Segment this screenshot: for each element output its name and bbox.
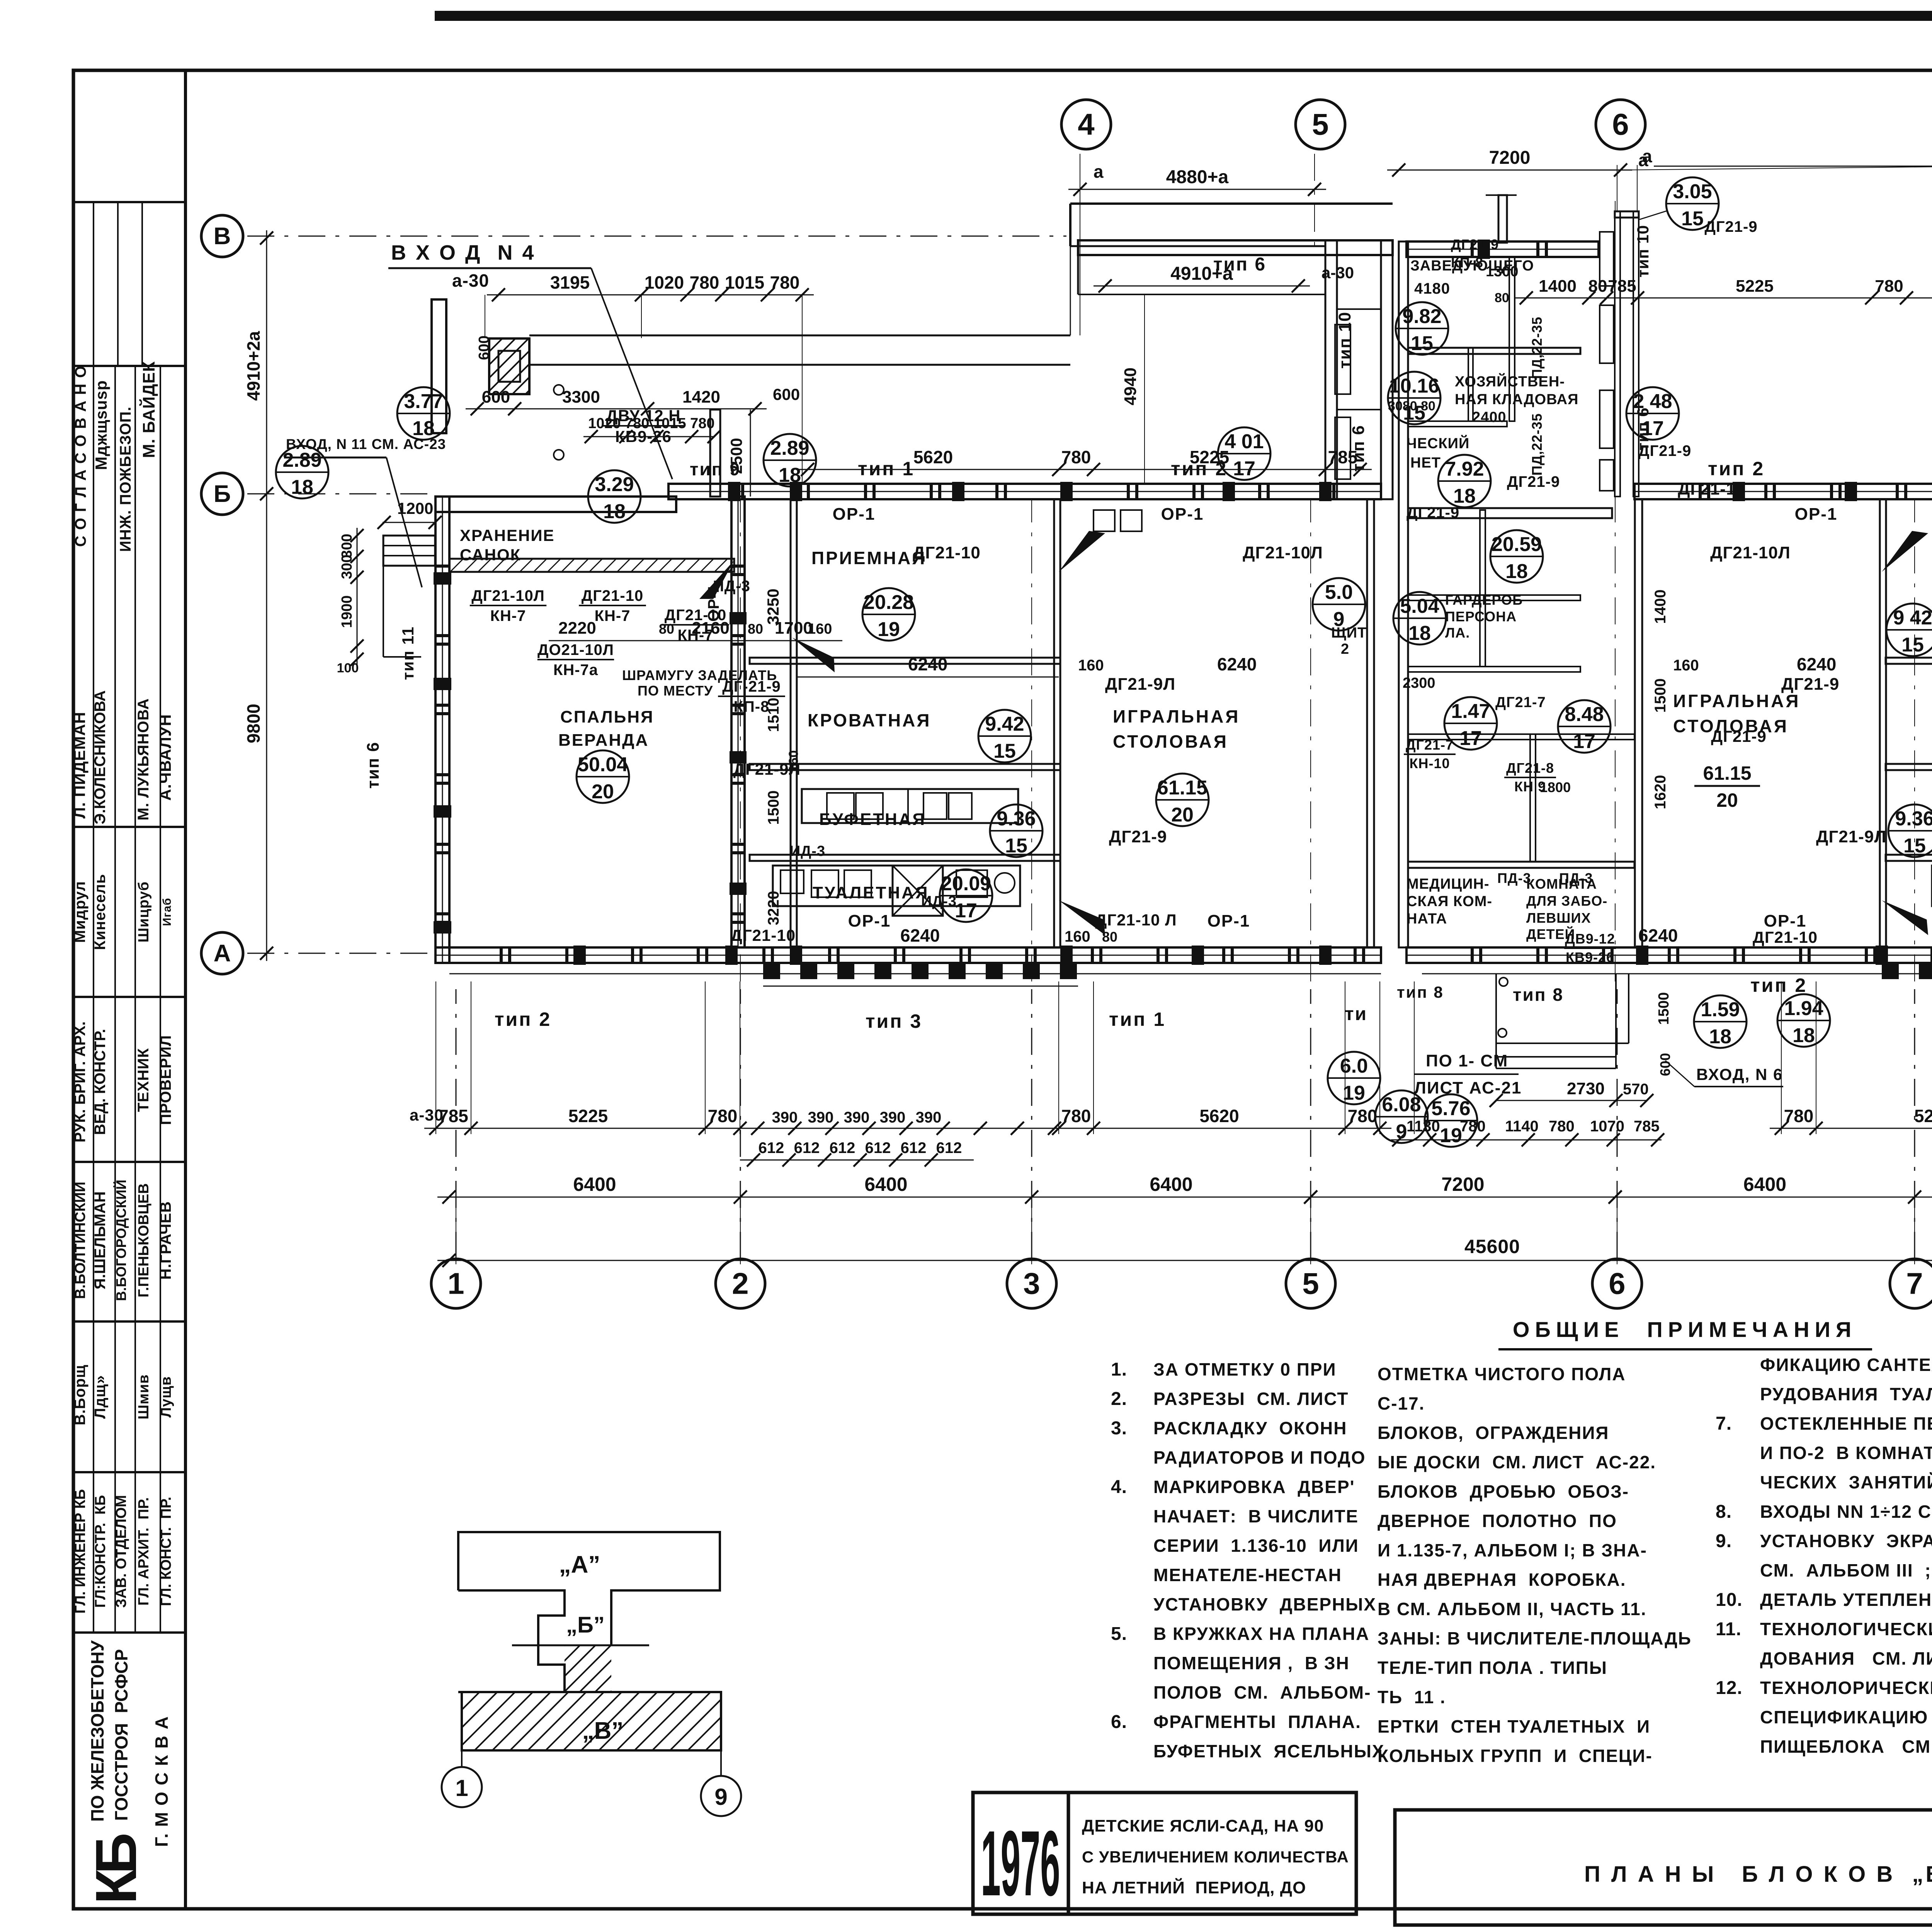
left plan: top dim chain a-30 3195 1020 780 1015 780: [487, 294, 814, 296]
svg-text:4: 4: [1078, 107, 1094, 141]
left plan: west small dim chain 300 300 1900 100: [357, 528, 358, 667]
svg-text:1420: 1420: [682, 388, 720, 406]
svg-text:20: 20: [592, 781, 614, 803]
svg-text:780: 780: [708, 1106, 738, 1126]
svg-text:17: 17: [1459, 727, 1482, 750]
svg-text:15: 15: [993, 740, 1016, 762]
svg-text:„Б”: „Б”: [566, 1612, 605, 1638]
svg-text:4180: 4180: [1414, 280, 1450, 297]
svg-text:Б: Б: [214, 481, 231, 507]
svg-text:300: 300: [339, 534, 355, 558]
svg-text:ЛЕВШИХ: ЛЕВШИХ: [1526, 910, 1591, 926]
svg-text:ЗАВ. ОТДЕЛОМ: ЗАВ. ОТДЕЛОМ: [113, 1495, 129, 1608]
svg-text:612: 612: [759, 1139, 784, 1156]
svg-text:ОР-1: ОР-1: [1764, 912, 1807, 930]
svg-text:5225: 5225: [1190, 447, 1229, 467]
svg-text:1500: 1500: [765, 791, 782, 825]
svg-text:19: 19: [1343, 1082, 1365, 1104]
left plan: wall reception/bed room: [750, 658, 1060, 664]
svg-text:ГЛ. КОНСТ. ПР.: ГЛ. КОНСТ. ПР.: [158, 1497, 174, 1606]
svg-text:РУК. БРИГ. АРХ.: РУК. БРИГ. АРХ.: [71, 1021, 88, 1143]
left plan: west outer window wall: [435, 497, 449, 963]
svg-text:80: 80: [748, 621, 763, 637]
svg-text:1: 1: [455, 1775, 468, 1801]
svg-text:СПАЛЬНЯ: СПАЛЬНЯ: [560, 707, 654, 726]
key plan match line: [512, 1645, 649, 1646]
svg-text:ДГ21-10: ДГ21-10: [1753, 928, 1818, 946]
svg-text:1976: 1976: [981, 1811, 1060, 1915]
svg-text:ДГ21-9: ДГ21-9: [1781, 675, 1839, 694]
left plan: wall bed/buffet room: [750, 764, 1060, 770]
svg-text:МЕНАТЕЛЕ-НЕСТАН: МЕНАТЕЛЕ-НЕСТАН: [1153, 1565, 1342, 1585]
svg-text:ПД-3: ПД-3: [1497, 870, 1531, 886]
svg-text:15: 15: [1005, 835, 1027, 857]
svg-text:М. ЛУКЬЯНОВА: М. ЛУКЬЯНОВА: [135, 698, 152, 821]
svg-text:В СМ. АЛЬБОМ II, ЧАСТЬ 11.: В СМ. АЛЬБОМ II, ЧАСТЬ 11.: [1378, 1599, 1647, 1619]
top dim 7200 right: [1387, 170, 1632, 171]
svg-text:ПОЛОВ СМ. АЛЬБОМ-: ПОЛОВ СМ. АЛЬБОМ-: [1153, 1682, 1371, 1702]
row letter bubbles: [201, 215, 243, 257]
svg-text:ПО ЖЕЛЕЗОБЕТОНУ: ПО ЖЕЛЕЗОБЕТОНУ: [87, 1640, 107, 1822]
svg-text:5225: 5225: [1914, 1106, 1932, 1126]
svg-text:1020: 1020: [645, 272, 684, 293]
svg-text:9.36: 9.36: [1895, 808, 1932, 830]
svg-text:780: 780: [1784, 1106, 1814, 1126]
left plan: play room radiator boxes: [1094, 510, 1115, 531]
svg-text:КВ9-26: КВ9-26: [1566, 949, 1614, 965]
svg-text:ТЕЛЕ-ТИП ПОЛА . ТИПЫ: ТЕЛЕ-ТИП ПОЛА . ТИПЫ: [1378, 1658, 1607, 1678]
svg-text:5: 5: [1312, 107, 1328, 141]
svg-text:1510: 1510: [765, 698, 782, 732]
svg-text:160: 160: [1673, 657, 1699, 674]
svg-text:СМ. АЛЬБОМ III ; ЧАСТЬ 7-6 ;: СМ. АЛЬБОМ III ; ЧАСТЬ 7-6 ; ЛИСТ 24.: [1760, 1560, 1932, 1580]
svg-text:5225: 5225: [568, 1106, 608, 1126]
right plan: middle section top facade wall: [1406, 241, 1599, 257]
left plan: east wall of play room: [1367, 499, 1374, 947]
svg-text:785: 785: [1608, 277, 1636, 296]
svg-text:Шмив: Шмив: [136, 1374, 152, 1419]
svg-text:ДГ21-9: ДГ21-9: [1451, 236, 1499, 252]
svg-text:ДГ21-10Л: ДГ21-10Л: [1710, 543, 1791, 562]
svg-text:ЫЕ ДОСКИ СМ. ЛИСТ АС-22.: ЫЕ ДОСКИ СМ. ЛИСТ АС-22.: [1378, 1452, 1656, 1472]
svg-text:КН-7: КН-7: [490, 607, 526, 624]
svg-text:20.28: 20.28: [864, 591, 914, 614]
svg-text:ДГ21-10 Л: ДГ21-10 Л: [1095, 911, 1177, 929]
svg-text:1620: 1620: [1652, 775, 1669, 810]
svg-text:780: 780: [1875, 277, 1903, 296]
svg-text:4940: 4940: [1121, 367, 1140, 405]
left plan: toilet room fixtures: [773, 866, 1020, 906]
title block project name box: [1068, 1793, 1356, 1914]
svg-text:И ПО-2 В КОМНАТЕ ДЛЯ МУЗЫКАЛЬ: И ПО-2 В КОМНАТЕ ДЛЯ МУЗЫКАЛЬНЫХ И ГИМНА…: [1760, 1443, 1932, 1463]
svg-text:5.76: 5.76: [1431, 1097, 1470, 1120]
svg-text:7200: 7200: [1441, 1173, 1484, 1195]
svg-text:785: 785: [1634, 1118, 1660, 1135]
svg-text:61.15: 61.15: [1157, 777, 1207, 799]
svg-text:ПД,22-35: ПД,22-35: [1529, 413, 1545, 476]
svg-text:ТЬ 11 .: ТЬ 11 .: [1378, 1687, 1446, 1707]
svg-text:80: 80: [1102, 929, 1117, 945]
scan edge black bar top: [435, 11, 1932, 21]
svg-text:3300: 3300: [562, 388, 600, 406]
svg-text:ЛА.: ЛА.: [1445, 625, 1470, 641]
top dim 4880+a: [1068, 189, 1326, 190]
svg-text:2500: 2500: [727, 438, 745, 474]
svg-text:Л. ПИДЕМАН: Л. ПИДЕМАН: [70, 712, 88, 819]
svg-text:ЩИТ: ЩИТ: [1331, 625, 1367, 641]
svg-text:17: 17: [1233, 457, 1255, 480]
svg-text:ДГ21-9: ДГ21-9: [1704, 218, 1757, 235]
left plan: west porch stair type11: [383, 536, 435, 566]
left plan: dim 5620 780 5225 785 upper row: [796, 469, 1372, 470]
svg-text:ИД-3: ИД-3: [790, 843, 825, 859]
grid bubbles bottom left plan: [456, 989, 457, 1259]
svg-text:ПОМЕЩЕНИЯ , В ЗН: ПОМЕЩЕНИЯ , В ЗН: [1153, 1653, 1350, 1673]
bottom dim row 6400 left: [437, 1197, 1322, 1198]
svg-text:10.: 10.: [1716, 1590, 1743, 1610]
svg-text:ДВЕРНОЕ ПОЛОТНО ПО: ДВЕРНОЕ ПОЛОТНО ПО: [1378, 1511, 1617, 1531]
svg-text:ОР-1: ОР-1: [833, 505, 876, 524]
svg-text:ГЛ. АРХИТ. ПР.: ГЛ. АРХИТ. ПР.: [136, 1497, 152, 1606]
left plan: doors diagonal strokes: [1059, 531, 1105, 572]
svg-text:3250: 3250: [764, 588, 782, 624]
svg-text:2: 2: [732, 1267, 748, 1301]
svg-text:А.ЧВАЛУН: А.ЧВАЛУН: [156, 714, 174, 801]
svg-text:2 48: 2 48: [1633, 390, 1672, 413]
svg-text:9.42: 9.42: [985, 713, 1024, 735]
svg-text:20: 20: [1716, 789, 1738, 811]
svg-text:Шицруб: Шицруб: [136, 881, 152, 942]
svg-text:ГЛ. ИНЖЕНЕР КБ: ГЛ. ИНЖЕНЕР КБ: [72, 1489, 88, 1614]
svg-text:6240: 6240: [1638, 925, 1678, 946]
svg-text:600: 600: [476, 335, 492, 360]
svg-text:а: а: [1642, 146, 1652, 166]
svg-text:1900: 1900: [339, 595, 355, 628]
svg-text:780: 780: [1549, 1118, 1575, 1135]
svg-text:6240: 6240: [1217, 654, 1257, 674]
svg-text:тип 2: тип 2: [1708, 458, 1765, 480]
svg-text:9: 9: [714, 1784, 727, 1810]
left plan: pier row sills: [763, 986, 1078, 987]
svg-text:15: 15: [1403, 402, 1425, 424]
svg-text:17: 17: [955, 900, 977, 922]
svg-text:КП-8: КП-8: [1451, 255, 1483, 270]
svg-text:7: 7: [1906, 1267, 1923, 1301]
svg-text:8.: 8.: [1716, 1502, 1732, 1522]
svg-text:НА ЛЕТНИЙ ПЕРИОД, ДО: НА ЛЕТНИЙ ПЕРИОД, ДО: [1082, 1878, 1306, 1897]
svg-text:а-30: а-30: [410, 1106, 444, 1124]
svg-text:РУДОВАНИЯ ТУАЛЕТНЫХ СМ. ЛИС: РУДОВАНИЯ ТУАЛЕТНЫХ СМ. ЛИСТ АС-20.: [1760, 1384, 1932, 1404]
svg-text:8.48: 8.48: [1565, 703, 1604, 726]
svg-text:ЗА ОТМЕТКУ 0 ПРИ: ЗА ОТМЕТКУ 0 ПРИ: [1153, 1359, 1337, 1379]
svg-text:390: 390: [772, 1109, 798, 1126]
svg-text:4 01: 4 01: [1225, 430, 1264, 453]
svg-text:ФРАГМЕНТЫ ПЛАНА.: ФРАГМЕНТЫ ПЛАНА.: [1153, 1712, 1361, 1732]
left plan: dim chain 600 3300 600: [466, 408, 767, 410]
svg-text:1: 1: [447, 1267, 464, 1301]
svg-text:15: 15: [1901, 634, 1924, 656]
svg-text:1500: 1500: [1652, 679, 1669, 713]
svg-text:7.: 7.: [1716, 1413, 1732, 1434]
svg-text:612: 612: [901, 1139, 927, 1156]
left plan: window pier column x1838 (entrance): [710, 410, 720, 497]
svg-text:УСТАНОВКУ ДВЕРНЫХ: УСТАНОВКУ ДВЕРНЫХ: [1153, 1594, 1376, 1614]
svg-text:„В”: „В”: [582, 1718, 624, 1744]
left plan: sled storage top wall: [435, 497, 676, 512]
svg-text:3.05: 3.05: [1673, 180, 1712, 203]
svg-text:а: а: [1094, 162, 1104, 182]
right plan: pier row under toilets: [1882, 963, 1899, 979]
svg-text:780: 780: [690, 272, 719, 293]
svg-text:ПРОВЕРИЛ: ПРОВЕРИЛ: [157, 1035, 174, 1125]
svg-text:780: 780: [1061, 1106, 1091, 1126]
svg-text:СЕРИИ 1.136-10 ИЛИ: СЕРИИ 1.136-10 ИЛИ: [1153, 1536, 1359, 1556]
svg-text:1.: 1.: [1111, 1359, 1127, 1380]
svg-text:2: 2: [1341, 641, 1349, 657]
svg-text:ЕРТКИ СТЕН ТУАЛЕТНЫХ И: ЕРТКИ СТЕН ТУАЛЕТНЫХ И: [1378, 1716, 1650, 1736]
svg-text:ВЕРАНДА: ВЕРАНДА: [558, 731, 649, 750]
svg-text:80: 80: [1588, 277, 1607, 296]
svg-text:3195: 3195: [550, 272, 590, 293]
svg-text:ДГ21-7: ДГ21-7: [1406, 737, 1454, 753]
svg-text:45600: 45600: [1464, 1236, 1520, 1257]
left plan: east corridor strip walls: [1325, 240, 1337, 499]
svg-text:2.: 2.: [1111, 1389, 1127, 1409]
svg-text:9.82: 9.82: [1402, 305, 1441, 328]
svg-text:П Л А Н Ы Б Л О К О В „В” и: П Л А Н Ы Б Л О К О В „В” и „Б”: [1584, 1862, 1932, 1887]
svg-text:15: 15: [1681, 207, 1704, 230]
svg-text:1070: 1070: [1590, 1118, 1624, 1135]
extension lines from facade to dim rows left: [435, 981, 436, 1134]
svg-text:Лущв: Лущв: [158, 1376, 174, 1417]
svg-text:18: 18: [412, 417, 435, 440]
svg-text:4910+2а: 4910+2а: [243, 331, 264, 401]
svg-text:ДЛЯ ЗАБО-: ДЛЯ ЗАБО-: [1526, 893, 1607, 909]
svg-text:В.БОЛТИНСКИЙ: В.БОЛТИНСКИЙ: [71, 1182, 88, 1299]
svg-text:В.Борщ: В.Борщ: [71, 1364, 88, 1425]
bottom dim row 1 left plan: [424, 1128, 1391, 1129]
svg-text:612: 612: [794, 1139, 820, 1156]
left plan: buffet counter fixtures: [802, 789, 1018, 823]
svg-text:а-30: а-30: [1321, 264, 1354, 282]
left plan: veranda east window wall: [731, 497, 745, 947]
right plan: leader 305-15: [1639, 211, 1668, 219]
svg-text:КН-10: КН-10: [1409, 755, 1450, 771]
svg-text:УСТАНОВКУ ЭКРАНА ОГРАЖДЕНИЯ: УСТАНОВКУ ЭКРАНА ОГРАЖДЕНИЯ В ТУАЛЕТНЫХ: [1760, 1531, 1932, 1551]
grid dashdot verticals into plan: [740, 498, 741, 981]
svg-text:ДГ21-7: ДГ21-7: [1495, 694, 1546, 711]
svg-text:ЛИСТ АС-21: ЛИСТ АС-21: [1414, 1078, 1522, 1097]
svg-text:Игаб: Игаб: [161, 898, 173, 926]
svg-text:20: 20: [1171, 804, 1194, 826]
svg-text:18: 18: [291, 476, 313, 498]
svg-text:ИГРАЛЬНАЯ: ИГРАЛЬНАЯ: [1673, 691, 1800, 711]
svg-text:2.89: 2.89: [282, 449, 321, 471]
svg-text:Мджщsusр: Мджщsusр: [92, 380, 110, 470]
svg-text:С УВЕЛИЧЕНИЕМ КОЛИЧЕСТВА: С УВЕЛИЧЕНИЕМ КОЛИЧЕСТВА: [1082, 1848, 1349, 1866]
svg-text:11.: 11.: [1716, 1619, 1742, 1639]
svg-text:ОТМЕТКА ЧИСТОГО ПОЛА: ОТМЕТКА ЧИСТОГО ПОЛА: [1378, 1364, 1626, 1384]
svg-text:С-17.: С-17.: [1378, 1393, 1425, 1413]
svg-text:тип 10: тип 10: [1335, 311, 1354, 369]
svg-text:6400: 6400: [1150, 1173, 1192, 1195]
svg-text:НАТА: НАТА: [1406, 911, 1447, 927]
svg-text:1500: 1500: [1656, 992, 1672, 1025]
right plan: lower facade wall: [1406, 947, 1932, 963]
svg-text:1.94: 1.94: [1784, 997, 1823, 1020]
svg-text:тип 2: тип 2: [495, 1009, 551, 1030]
svg-text:МЕДИЦИН-: МЕДИЦИН-: [1406, 876, 1490, 892]
svg-text:ТУАЛЕТНАЯ: ТУАЛЕТНАЯ: [813, 883, 929, 902]
svg-text:ДГ21-9: ДГ21-9: [1109, 827, 1167, 846]
svg-text:10.16: 10.16: [1389, 375, 1439, 397]
svg-text:М. БАЙДЕК: М. БАЙДЕК: [139, 361, 158, 458]
svg-text:9 42: 9 42: [1893, 607, 1932, 629]
svg-text:НАЧАЕТ: В ЧИСЛИТЕ: НАЧАЕТ: В ЧИСЛИТЕ: [1153, 1506, 1359, 1526]
stamp column grid: [184, 70, 187, 1909]
key plan bubbles: [461, 1750, 463, 1768]
svg-text:ГЛ:КОНСТР. КБ: ГЛ:КОНСТР. КБ: [92, 1495, 109, 1608]
svg-text:БЛОКОВ, ОГРАЖДЕНИЯ: БЛОКОВ, ОГРАЖДЕНИЯ: [1378, 1423, 1609, 1443]
bottom dim row total 45600: [437, 1260, 1932, 1261]
left plan: upper facade wall type1/type9: [668, 484, 1381, 499]
svg-text:5.04: 5.04: [1400, 595, 1439, 617]
svg-text:тип 2: тип 2: [1750, 975, 1807, 996]
svg-text:1800: 1800: [1540, 779, 1571, 795]
svg-text:ПИЩЕБЛОКА СМ. ЛИСТ Т-3 .: ПИЩЕБЛОКА СМ. ЛИСТ Т-3 .: [1760, 1736, 1932, 1757]
svg-text:18: 18: [603, 500, 626, 523]
svg-text:Кинесель: Кинесель: [92, 874, 109, 950]
svg-text:ОР-1: ОР-1: [848, 912, 891, 930]
svg-text:2160: 2160: [692, 619, 730, 638]
svg-text:5620: 5620: [913, 447, 953, 467]
svg-text:20.09: 20.09: [941, 872, 991, 895]
svg-text:ДГ21-9: ДГ21-9: [1711, 727, 1767, 745]
title block 1976 logo box: [973, 1793, 1068, 1914]
svg-text:61.15: 61.15: [1703, 762, 1751, 784]
svg-text:100: 100: [337, 661, 359, 675]
svg-text:ФИКАЦИЮ САНТЕХНИЧЕСКОГО И ТЕХН: ФИКАЦИЮ САНТЕХНИЧЕСКОГО И ТЕХНОЛОГИЧЕСКО…: [1760, 1355, 1932, 1375]
svg-text:Н.ГРАЧЕВ: Н.ГРАЧЕВ: [157, 1201, 174, 1279]
right plan: canopy right part: [1654, 166, 1932, 167]
svg-text:КРОВАТНАЯ: КРОВАТНАЯ: [808, 710, 931, 730]
svg-text:БЛОКОВ ДРОБЬЮ ОБОЗ-: БЛОКОВ ДРОБЬЮ ОБОЗ-: [1378, 1481, 1629, 1502]
svg-text:В: В: [214, 223, 231, 250]
svg-text:1.59: 1.59: [1701, 998, 1740, 1021]
svg-text:ТЕХНОЛОРИЧЕСКИЙ ПЛАН ПИЩЕБЛОК: ТЕХНОЛОРИЧЕСКИЙ ПЛАН ПИЩЕБЛОКА И ПОСТИРО…: [1760, 1678, 1932, 1698]
svg-text:КП-8: КП-8: [734, 698, 770, 715]
svg-text:ТЕХНИК: ТЕХНИК: [135, 1048, 152, 1112]
svg-text:ДОВАНИЯ СМ. ЛИСТЫ Т-1 , Т-: ДОВАНИЯ СМ. ЛИСТЫ Т-1 , Т-2 .: [1760, 1648, 1932, 1668]
svg-text:1300: 1300: [1486, 264, 1519, 280]
left plan: wall buffet/toilet room: [750, 855, 1060, 861]
svg-text:390: 390: [808, 1109, 834, 1126]
svg-text:тип 10: тип 10: [1634, 225, 1652, 277]
svg-text:9800: 9800: [243, 704, 264, 743]
bottom dim row 1 right plan: [1770, 1128, 1932, 1129]
right plan: upper facade wall group cell: [1634, 484, 1932, 499]
svg-text:17: 17: [1641, 417, 1664, 440]
svg-text:ДГ21-10: ДГ21-10: [1678, 480, 1746, 498]
svg-text:ДГ21-9Л: ДГ21-9Л: [1105, 675, 1175, 694]
svg-text:1020 780 1015 780: 1020 780 1015 780: [588, 415, 715, 432]
top grid bubbles 4 5: [1061, 100, 1111, 149]
svg-text:12.: 12.: [1716, 1678, 1743, 1698]
svg-text:ВХОД, N 6: ВХОД, N 6: [1696, 1065, 1783, 1083]
svg-text:9.: 9.: [1716, 1531, 1732, 1551]
svg-text:612: 612: [936, 1139, 962, 1156]
svg-text:19: 19: [878, 618, 900, 641]
svg-text:ОР-1: ОР-1: [1207, 912, 1250, 930]
svg-text:КОЛЬНЫХ ГРУПП И СПЕЦИ-: КОЛЬНЫХ ГРУПП И СПЕЦИ-: [1378, 1746, 1653, 1766]
svg-text:ГАРДЕРОБ: ГАРДЕРОБ: [1445, 592, 1523, 608]
svg-text:19: 19: [1440, 1124, 1462, 1147]
right plan: vent stub above facade: [1498, 195, 1507, 243]
right plan: entrance N6 porch steps: [1495, 974, 1497, 1068]
left plan: partition column left wall: [791, 499, 797, 947]
left plan: wall toilets/play room: [1054, 499, 1060, 947]
svg-text:СКАЯ КОМ-: СКАЯ КОМ-: [1406, 893, 1492, 910]
svg-text:15: 15: [1411, 332, 1433, 355]
svg-text:ДЕТСКИЕ ЯСЛИ-САД, НА 90: ДЕТСКИЕ ЯСЛИ-САД, НА 90: [1082, 1816, 1324, 1835]
svg-text:ДГ21-10: ДГ21-10: [913, 543, 981, 562]
svg-text:3.77: 3.77: [404, 390, 443, 413]
left plan: pier row under toilets: [763, 963, 780, 979]
right plan: doors diagonal wedges: [1882, 531, 1928, 572]
svg-text:ПРИЕМНАЯ: ПРИЕМНАЯ: [811, 548, 926, 568]
left plan: porch wall stubs: [432, 299, 446, 433]
svg-text:ПЕРСОНА: ПЕРСОНА: [1445, 609, 1517, 624]
svg-text:тип 8: тип 8: [1513, 985, 1564, 1005]
svg-text:3.: 3.: [1111, 1418, 1127, 1439]
svg-text:3.29: 3.29: [595, 473, 634, 496]
svg-text:РАЗРЕЗЫ СМ. ЛИСТ: РАЗРЕЗЫ СМ. ЛИСТ: [1153, 1389, 1349, 1409]
right plan: corridor tower walls at axis 6: [1615, 211, 1620, 497]
svg-text:1400: 1400: [1652, 590, 1669, 624]
svg-text:СТОЛОВАЯ: СТОЛОВАЯ: [1113, 731, 1228, 752]
svg-text:ХОЗЯЙСТВЕН-: ХОЗЯЙСТВЕН-: [1455, 372, 1565, 390]
svg-text:6.08: 6.08: [1382, 1094, 1421, 1116]
svg-text:2300: 2300: [1403, 675, 1435, 691]
svg-text:18: 18: [1408, 622, 1431, 645]
right plan: middle section west wall: [1399, 241, 1408, 947]
svg-text:СПЕЦИФИКАЦИЮ ТЕХНОЛОГИЧЕСКОГО: СПЕЦИФИКАЦИЮ ТЕХНОЛОГИЧЕСКОГО ОБОРУДОВАН…: [1760, 1707, 1932, 1727]
svg-text:785: 785: [1328, 447, 1358, 467]
svg-text:ОСТЕКЛЕННЫЕ ПЕРЕГОРОДКИ ПО-1 В: ОСТЕКЛЕННЫЕ ПЕРЕГОРОДКИ ПО-1 В МЕДИЦИНСК…: [1760, 1413, 1932, 1434]
svg-text:ДЕТАЛЬ УТЕПЛЕНИЯ ТАМБУРА СМ.: ДЕТАЛЬ УТЕПЛЕНИЯ ТАМБУРА СМ. ЛИСТ АС-22.: [1760, 1590, 1932, 1610]
svg-text:600: 600: [1657, 1053, 1673, 1076]
svg-text:5.0: 5.0: [1325, 581, 1353, 604]
svg-text:ПО МЕСТУ: ПО МЕСТУ: [638, 683, 713, 699]
top dim 4910+a: [1094, 286, 1310, 287]
svg-text:20.59: 20.59: [1492, 533, 1542, 556]
svg-text:2.89: 2.89: [770, 437, 809, 459]
svg-text:НЕТ: НЕТ: [1410, 455, 1441, 471]
svg-text:1140: 1140: [1505, 1118, 1539, 1135]
svg-text:В.БОГОРОДСКИЙ: В.БОГОРОДСКИЙ: [113, 1180, 129, 1301]
left plan: entrance canopy walkway lines: [529, 335, 1070, 337]
svg-text:390: 390: [916, 1109, 942, 1126]
svg-text:тип 3: тип 3: [866, 1010, 922, 1032]
svg-text:ДВ9-12: ДВ9-12: [1565, 931, 1615, 947]
svg-text:ЗАНЫ: В ЧИСЛИТЕЛЕ-ПЛОЩАДЬ: ЗАНЫ: В ЧИСЛИТЕЛЕ-ПЛОЩАДЬ: [1378, 1628, 1692, 1648]
svg-text:„А”: „А”: [559, 1551, 600, 1578]
svg-text:НАЯ ДВЕРНАЯ КОРОБКА.: НАЯ ДВЕРНАЯ КОРОБКА.: [1378, 1570, 1626, 1590]
svg-text:ИД-3: ИД-3: [921, 893, 957, 910]
svg-text:ОР-1: ОР-1: [1161, 505, 1204, 524]
svg-text:а-30: а-30: [452, 270, 489, 291]
bottom dim ticks dense piers: [751, 1122, 764, 1135]
